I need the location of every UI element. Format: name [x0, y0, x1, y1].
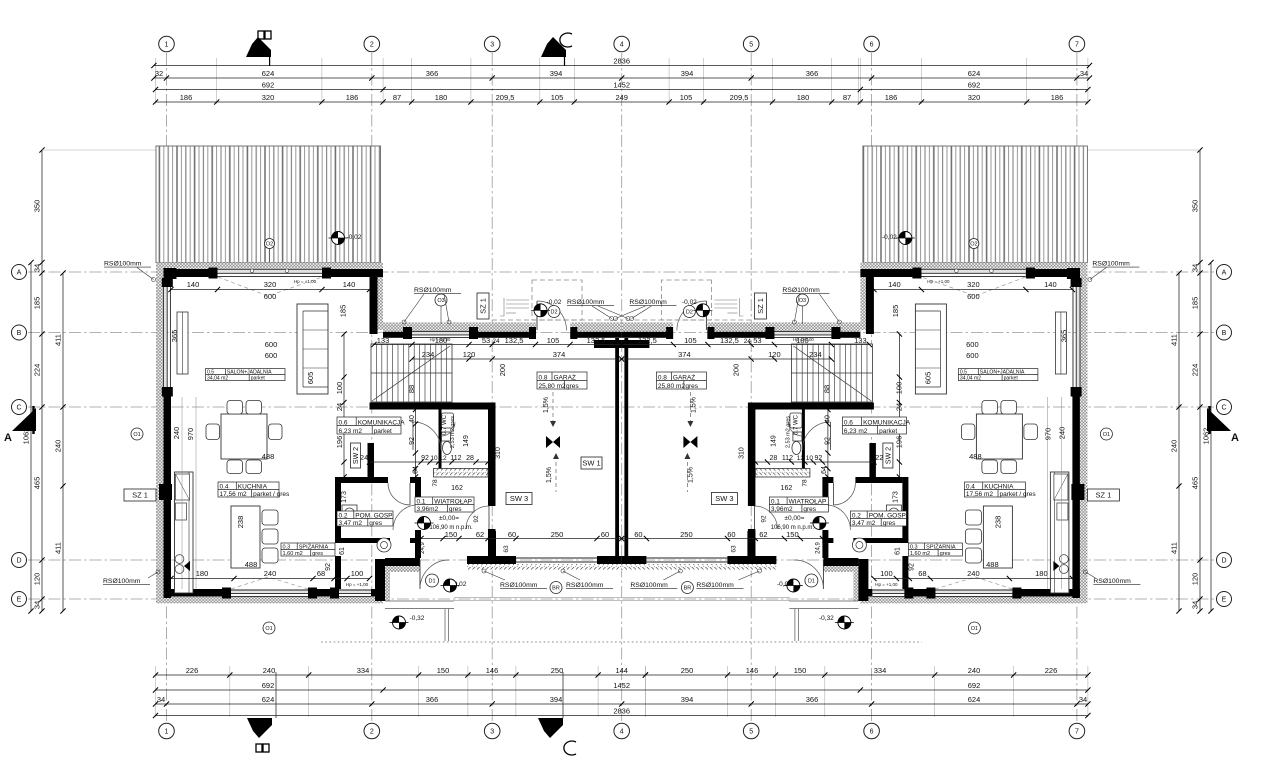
- top window O2: [218, 269, 323, 274]
- komunikacja dim: [370, 461, 489, 463]
- grid circles bottom: [159, 723, 175, 739]
- svg-text:24,9: 24,9: [420, 542, 426, 554]
- svg-text:25,80 m2: 25,80 m2: [539, 383, 566, 390]
- svg-text:7: 7: [1075, 729, 1079, 736]
- svg-text:605: 605: [306, 372, 315, 385]
- svg-text:320: 320: [264, 280, 277, 289]
- svg-text:366: 366: [426, 69, 439, 78]
- right dim col segments: [1199, 150, 1201, 611]
- salon/pom gosp wall stub: [368, 443, 375, 483]
- svg-text:C: C: [1221, 405, 1226, 412]
- svg-text:28: 28: [770, 455, 778, 462]
- garage side door: [529, 327, 536, 339]
- svg-text:196: 196: [335, 436, 344, 449]
- svg-text:238: 238: [993, 516, 1002, 529]
- svg-text:92: 92: [815, 455, 823, 462]
- svg-text:RSØ100mm: RSØ100mm: [500, 582, 538, 589]
- svg-text:240: 240: [263, 666, 276, 675]
- svg-text:Hp = +1,00: Hp = +1,00: [927, 279, 950, 284]
- svg-text:320: 320: [967, 280, 980, 289]
- svg-text:0.2: 0.2: [339, 512, 348, 519]
- dim row 624/366/394: [154, 77, 1090, 79]
- wiatrolap-garage door: [488, 506, 490, 529]
- svg-text:240: 240: [264, 569, 277, 578]
- svg-text:±0,00=: ±0,00=: [784, 515, 804, 522]
- svg-text:61: 61: [894, 547, 901, 555]
- svg-text:146: 146: [486, 666, 499, 675]
- svg-text:140: 140: [187, 280, 200, 289]
- svg-text:12: 12: [797, 455, 805, 462]
- interior dim lines salon: [171, 289, 370, 291]
- svg-text:2: 2: [370, 42, 374, 49]
- svg-text:0.4: 0.4: [966, 483, 975, 490]
- svg-text:E: E: [1222, 597, 1227, 604]
- svg-text:10: 10: [430, 455, 438, 462]
- svg-text:366: 366: [426, 695, 439, 704]
- room label GARA&#379;: [656, 372, 706, 389]
- svg-text:1452: 1452: [613, 681, 630, 690]
- outer wall top band: [164, 269, 218, 277]
- svg-text:250: 250: [680, 530, 693, 539]
- svg-text:1452: 1452: [613, 80, 630, 89]
- svg-text:196: 196: [894, 436, 903, 449]
- step wall near grid2: [375, 559, 385, 601]
- wc west wall: [439, 410, 442, 471]
- svg-text:-0,02: -0,02: [347, 234, 362, 241]
- svg-text:365: 365: [170, 330, 179, 343]
- svg-text:O2: O2: [266, 242, 273, 248]
- room label POM. GOSP: [337, 511, 393, 526]
- svg-text:624: 624: [262, 69, 275, 78]
- svg-text:68: 68: [317, 569, 325, 578]
- svg-text:185: 185: [891, 305, 900, 318]
- svg-text:SZ 1: SZ 1: [479, 298, 488, 314]
- svg-text:600: 600: [966, 340, 979, 349]
- entrance front wall: [385, 558, 420, 566]
- svg-text:0.3: 0.3: [910, 544, 918, 550]
- svg-text:0.7 WC: 0.7 WC: [442, 414, 448, 435]
- svg-text:0.8: 0.8: [658, 374, 667, 381]
- svg-text:112: 112: [782, 455, 793, 462]
- svg-text:gres: gres: [940, 551, 951, 557]
- svg-text:92: 92: [325, 563, 332, 571]
- svg-text:78: 78: [801, 479, 808, 487]
- svg-text:gres: gres: [312, 551, 323, 557]
- svg-text:-0,32: -0,32: [819, 615, 834, 622]
- svg-text:100: 100: [880, 569, 893, 578]
- dining table: [221, 414, 267, 459]
- svg-text:105: 105: [547, 336, 560, 345]
- svg-text:140: 140: [888, 280, 901, 289]
- svg-text:KOMUNIKACJA: KOMUNIKACJA: [863, 419, 911, 426]
- extension lines bottom: [156, 666, 1088, 717]
- svg-text:BR: BR: [552, 586, 560, 592]
- svg-text:374: 374: [553, 350, 566, 359]
- svg-text:1,5%: 1,5%: [546, 467, 553, 483]
- svg-text:RSØ100mm: RSØ100mm: [567, 299, 605, 306]
- svg-text:WIATROŁAP: WIATROŁAP: [789, 498, 827, 505]
- svg-text:185: 185: [1191, 297, 1200, 310]
- svg-text:3: 3: [490, 42, 494, 49]
- svg-text:150: 150: [445, 530, 458, 539]
- svg-text:61: 61: [339, 547, 346, 555]
- svg-text:146: 146: [746, 666, 759, 675]
- room label SALON+JADALNIA: [206, 369, 286, 381]
- svg-text:411: 411: [1170, 334, 1179, 346]
- svg-text:250: 250: [551, 530, 564, 539]
- svg-text:24: 24: [492, 338, 500, 345]
- salon interior vertical thin dim lines: [181, 397, 183, 589]
- svg-text:-0,32: -0,32: [410, 615, 425, 622]
- svg-text:gres: gres: [369, 520, 382, 527]
- svg-text:SZ 1: SZ 1: [132, 491, 148, 500]
- outer wall left: [164, 269, 172, 287]
- grid axis dash-dot horizontal lines A-E: [28, 272, 1214, 599]
- svg-text:C: C: [16, 405, 21, 412]
- svg-text:320: 320: [968, 93, 981, 102]
- svg-text:320: 320: [262, 93, 275, 102]
- svg-text:365: 365: [1059, 330, 1068, 343]
- svg-text:SW 3: SW 3: [715, 494, 733, 503]
- svg-text:411: 411: [1170, 542, 1179, 554]
- kitchen island: [231, 506, 260, 568]
- room label WIATRO&#321;AP: [769, 497, 828, 512]
- svg-text:692: 692: [968, 681, 981, 690]
- svg-text:200: 200: [731, 364, 740, 377]
- svg-text:-0,02: -0,02: [882, 234, 897, 241]
- svg-text:6: 6: [870, 729, 874, 736]
- bottom window small: [339, 589, 371, 593]
- svg-text:240: 240: [967, 569, 980, 578]
- svg-text:394: 394: [550, 69, 563, 78]
- room label KOMUNIKACJA: [337, 417, 401, 434]
- svg-text:132,5: 132,5: [587, 336, 606, 345]
- SW3 tags: [506, 493, 532, 505]
- svg-text:gres: gres: [803, 506, 816, 513]
- svg-text:106,90 m n.p.m.: 106,90 m n.p.m.: [771, 525, 815, 531]
- svg-text:34: 34: [1191, 601, 1200, 609]
- svg-text:B: B: [17, 330, 22, 337]
- svg-text:88: 88: [822, 385, 831, 393]
- svg-text:25,80 m2: 25,80 m2: [658, 383, 685, 390]
- svg-text:3,47 m2: 3,47 m2: [852, 520, 876, 527]
- svg-text:60: 60: [601, 530, 609, 539]
- pantry wall vertical: [335, 477, 341, 540]
- svg-text:1,60 m2: 1,60 m2: [910, 551, 930, 557]
- svg-text:374: 374: [678, 350, 691, 359]
- svg-text:B: B: [1222, 330, 1227, 337]
- svg-text:411: 411: [54, 542, 63, 554]
- svg-text:240: 240: [968, 666, 981, 675]
- svg-text:226: 226: [186, 666, 199, 675]
- svg-text:92: 92: [908, 563, 915, 571]
- right dim col total 1062: [1210, 263, 1212, 612]
- svg-text:250: 250: [681, 666, 694, 675]
- svg-text:149: 149: [770, 435, 777, 447]
- svg-text:92: 92: [824, 437, 831, 445]
- bottom window O1: [231, 589, 308, 593]
- svg-text:±0,00=: ±0,00=: [439, 515, 459, 522]
- svg-text:186: 186: [1051, 93, 1064, 102]
- wall at grid 2: [370, 269, 378, 334]
- svg-text:40: 40: [409, 415, 416, 423]
- section arrow A left: [12, 408, 36, 431]
- svg-text:53: 53: [753, 336, 761, 345]
- svg-text:600: 600: [265, 351, 278, 360]
- svg-text:350: 350: [33, 200, 42, 213]
- svg-text:5: 5: [749, 42, 753, 49]
- svg-text:238: 238: [236, 516, 245, 529]
- svg-text:234: 234: [809, 350, 822, 359]
- extension lines top: [156, 58, 1088, 104]
- svg-text:624: 624: [968, 695, 981, 704]
- svg-text:D: D: [1221, 558, 1226, 565]
- dim row bottom 624/366/394: [156, 703, 1088, 705]
- svg-text:366: 366: [806, 69, 819, 78]
- svg-text:63: 63: [730, 545, 737, 553]
- komunikacja top wall: [370, 403, 496, 410]
- garage door: [516, 558, 597, 562]
- wc/wiatrolap hatched wall: [434, 469, 489, 478]
- svg-text:62: 62: [476, 530, 484, 539]
- svg-text:624: 624: [262, 695, 275, 704]
- svg-text:BR: BR: [684, 586, 692, 592]
- porch steps: [385, 600, 454, 602]
- svg-text:465: 465: [1191, 477, 1200, 490]
- svg-text:334: 334: [874, 666, 887, 675]
- svg-text:RSØ100mm: RSØ100mm: [414, 287, 452, 294]
- svg-text:120: 120: [33, 573, 42, 586]
- svg-text:A: A: [4, 432, 12, 444]
- svg-text:394: 394: [681, 695, 694, 704]
- svg-text:Hp = +1,00: Hp = +1,00: [294, 279, 317, 284]
- svg-text:SW 2: SW 2: [885, 447, 892, 464]
- svg-text:Hp = +1,00: Hp = +1,00: [430, 337, 451, 342]
- svg-text:0.1: 0.1: [417, 498, 426, 505]
- svg-text:366: 366: [806, 695, 819, 704]
- dim row fine top: [156, 101, 1088, 103]
- svg-text:3: 3: [490, 729, 494, 736]
- svg-text:4: 4: [620, 42, 624, 49]
- svg-text:24,9: 24,9: [815, 542, 821, 554]
- SW1 top flange half: [594, 340, 622, 348]
- section flag B bottom-left: [247, 718, 272, 738]
- roof hatch right: [863, 146, 1088, 263]
- svg-text:173: 173: [341, 491, 348, 503]
- svg-text:34: 34: [157, 695, 165, 704]
- svg-text:209,5: 209,5: [496, 93, 515, 102]
- svg-text:234: 234: [422, 350, 435, 359]
- svg-text:250: 250: [551, 666, 564, 675]
- svg-text:GARAŻ: GARAŻ: [554, 372, 576, 381]
- svg-text:3,96m2: 3,96m2: [417, 506, 439, 513]
- svg-text:32: 32: [155, 69, 163, 78]
- svg-text:0.4: 0.4: [220, 483, 229, 490]
- svg-text:34: 34: [33, 601, 42, 609]
- kitchen bottom dim: [171, 578, 370, 580]
- room label GARA&#379;: [537, 372, 587, 389]
- svg-text:162: 162: [451, 485, 463, 492]
- svg-text:120: 120: [463, 350, 476, 359]
- svg-text:-0,02: -0,02: [682, 299, 697, 306]
- svg-text:D2: D2: [686, 310, 693, 316]
- svg-text:150: 150: [437, 666, 450, 675]
- svg-text:180: 180: [797, 93, 810, 102]
- svg-text:224: 224: [33, 364, 42, 377]
- svg-text:WIATROŁAP: WIATROŁAP: [434, 498, 472, 505]
- svg-text:A: A: [17, 270, 22, 277]
- center pier bar half: [597, 556, 622, 564]
- svg-text:64: 64: [821, 466, 828, 474]
- svg-text:SZ 1: SZ 1: [756, 298, 765, 314]
- svg-text:O1: O1: [1103, 432, 1110, 438]
- svg-text:0.6: 0.6: [844, 419, 853, 426]
- bottom window dashed V: [231, 577, 308, 589]
- room label KUCHNIA: [218, 482, 279, 497]
- porch T pier: [467, 556, 516, 564]
- svg-text:0.8: 0.8: [539, 374, 548, 381]
- svg-text:185: 185: [33, 297, 42, 310]
- svg-text:144: 144: [615, 666, 628, 675]
- svg-text:1,5%: 1,5%: [543, 397, 550, 413]
- svg-text:parket: parket: [374, 428, 392, 435]
- room label SPI&#379;ARNIA: [281, 543, 335, 556]
- svg-text:24: 24: [894, 403, 903, 411]
- room label WIATRO&#321;AP: [415, 497, 474, 512]
- svg-text:gres: gres: [449, 506, 462, 513]
- garage west wall: [488, 410, 496, 507]
- svg-text:87: 87: [393, 93, 401, 102]
- svg-text:465: 465: [33, 477, 42, 490]
- svg-text:600: 600: [265, 340, 278, 349]
- svg-text:488: 488: [262, 452, 275, 461]
- svg-text:O1: O1: [133, 432, 140, 438]
- svg-text:24: 24: [744, 338, 752, 345]
- svg-text:600: 600: [967, 292, 980, 301]
- dim row fine bottom: [156, 674, 1088, 676]
- svg-text:2,53 m2 gres: 2,53 m2 gres: [785, 416, 791, 448]
- dim row 692/1452/692: [156, 89, 1088, 91]
- svg-text:180: 180: [1035, 569, 1048, 578]
- grid axis dash-dot vertical lines: [167, 53, 1077, 722]
- SZ duct in left wall: [159, 484, 172, 500]
- svg-text:O2: O2: [970, 242, 977, 248]
- wiatrolap west wall: [415, 483, 421, 505]
- garage top dims: [374, 344, 622, 346]
- czerpnia note block: [500, 298, 529, 316]
- svg-text:350: 350: [1191, 200, 1200, 213]
- svg-text:240: 240: [172, 427, 181, 440]
- svg-text:310: 310: [495, 447, 502, 459]
- svg-text:226: 226: [1045, 666, 1058, 675]
- svg-text:D1: D1: [808, 579, 815, 585]
- SW1 center wall half: [615, 338, 619, 556]
- svg-text:4: 4: [620, 729, 624, 736]
- svg-text:RSØ100mm: RSØ100mm: [1092, 261, 1130, 268]
- svg-text:0.1: 0.1: [771, 498, 780, 505]
- garage front window: [412, 331, 469, 335]
- svg-text:A: A: [1222, 270, 1227, 277]
- svg-text:132,5: 132,5: [720, 336, 739, 345]
- section flag C bottom-right: [538, 718, 563, 738]
- svg-text:Hp = +1,00: Hp = +1,00: [346, 582, 369, 587]
- svg-text:34,04 m2: 34,04 m2: [207, 375, 228, 381]
- svg-text:60: 60: [634, 530, 642, 539]
- svg-text:133: 133: [377, 336, 390, 345]
- eave dotted line: [321, 641, 922, 643]
- svg-text:92: 92: [760, 515, 767, 523]
- svg-text:RSØ100mm: RSØ100mm: [629, 299, 667, 306]
- left dim col segments: [41, 150, 43, 611]
- svg-text:149: 149: [463, 435, 470, 447]
- svg-text:209,5: 209,5: [730, 93, 749, 102]
- svg-text:78: 78: [432, 479, 439, 487]
- svg-text:SALON+JADALNIA: SALON+JADALNIA: [227, 369, 272, 375]
- svg-text:parket / gres: parket / gres: [253, 491, 290, 498]
- svg-text:parket: parket: [1004, 375, 1019, 381]
- left dim col total 1062: [30, 263, 32, 612]
- svg-text:488: 488: [986, 560, 999, 569]
- svg-text:173: 173: [892, 491, 899, 503]
- svg-text:7: 7: [1075, 42, 1079, 49]
- svg-text:gres: gres: [883, 520, 896, 527]
- room label SALON+JADALNIA: [958, 369, 1038, 381]
- svg-text:POM. GOSP: POM. GOSP: [869, 512, 906, 519]
- svg-text:gres: gres: [566, 383, 579, 390]
- svg-text:3,96m2: 3,96m2: [771, 506, 793, 513]
- svg-text:28: 28: [466, 455, 474, 462]
- svg-text:34: 34: [1191, 264, 1200, 272]
- svg-text:O3: O3: [799, 298, 806, 304]
- svg-text:92: 92: [473, 515, 480, 523]
- svg-text:SW 3: SW 3: [510, 494, 528, 503]
- porch slab edge lines: [454, 597, 790, 599]
- svg-text:133: 133: [854, 336, 867, 345]
- svg-text:SW 2: SW 2: [353, 447, 360, 464]
- svg-text:D2: D2: [550, 310, 557, 316]
- svg-text:SALON+JADALNIA: SALON+JADALNIA: [980, 369, 1025, 375]
- svg-text:6: 6: [870, 42, 874, 49]
- svg-text:RSØ100mm: RSØ100mm: [103, 578, 141, 585]
- svg-text:D: D: [16, 558, 21, 565]
- svg-text:88: 88: [407, 385, 416, 393]
- svg-text:KUCHNIA: KUCHNIA: [984, 483, 1014, 490]
- garage floor drain: [546, 436, 560, 448]
- SW1 tag: [581, 457, 602, 469]
- svg-text:249: 249: [615, 93, 628, 102]
- salon window dashed V: [218, 277, 322, 296]
- section flag B top-left: [246, 37, 271, 57]
- svg-text:53: 53: [482, 336, 490, 345]
- vertical dim chain x344: [343, 334, 345, 477]
- vertical dim chain x415.5: [415, 410, 417, 478]
- svg-text:692: 692: [262, 80, 275, 89]
- garage front wall: [383, 332, 412, 338]
- svg-text:Hp = +1,00: Hp = +1,00: [875, 582, 898, 587]
- svg-text:6,23 m2: 6,23 m2: [844, 428, 868, 435]
- SW2 tags: [351, 443, 361, 468]
- svg-text:186: 186: [346, 93, 359, 102]
- svg-text:17,56 m2: 17,56 m2: [220, 491, 247, 498]
- svg-text:62: 62: [759, 530, 767, 539]
- svg-text:5: 5: [749, 729, 753, 736]
- svg-text:parket: parket: [879, 428, 897, 435]
- svg-text:parket / gres: parket / gres: [1000, 491, 1037, 498]
- svg-text:132,5: 132,5: [638, 336, 657, 345]
- row circles left: [12, 265, 27, 280]
- svg-text:2,53 m2 gres: 2,53 m2 gres: [450, 416, 456, 448]
- svg-text:Hp = +1,00: Hp = +1,00: [793, 337, 814, 342]
